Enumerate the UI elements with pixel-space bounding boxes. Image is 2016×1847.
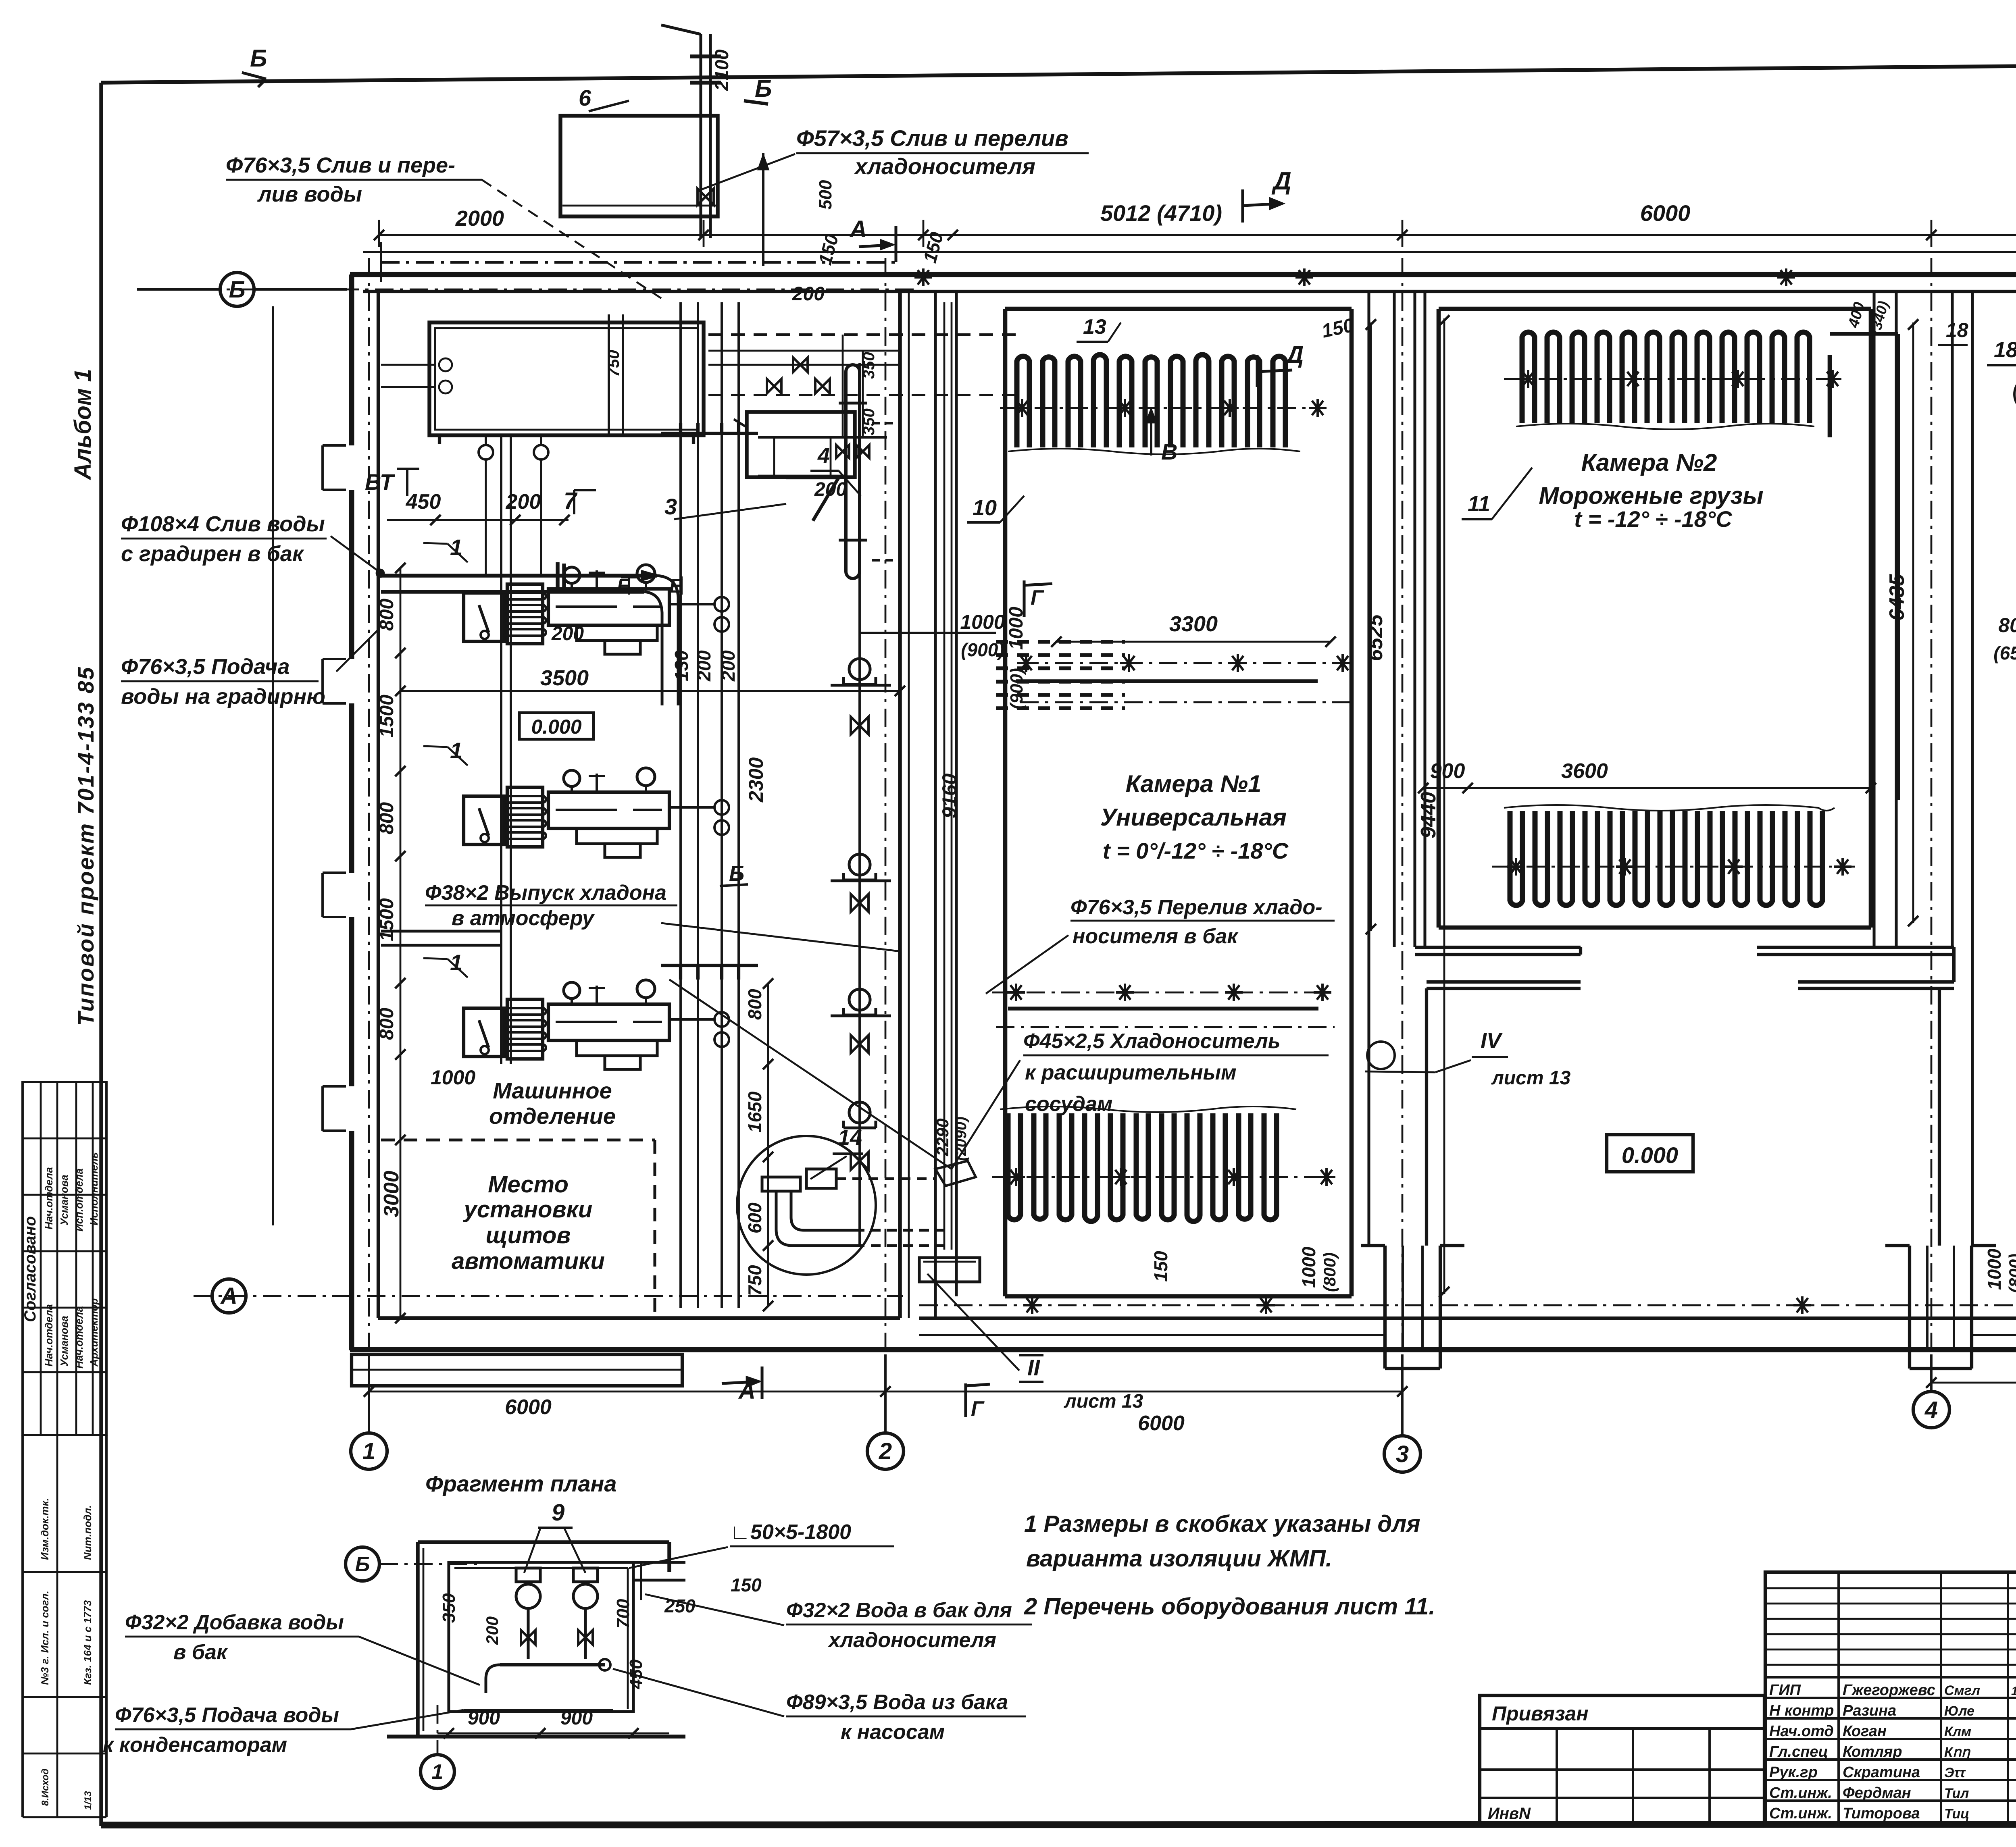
svg-text:2300: 2300 bbox=[745, 757, 767, 803]
svg-text:Б: Б bbox=[755, 75, 772, 102]
svg-text:Коган: Коган bbox=[1843, 1723, 1887, 1740]
svg-text:Б: Б bbox=[250, 45, 267, 72]
svg-text:9160: 9160 bbox=[938, 774, 961, 818]
svg-text:1 Размеры в скобках указаны дл: 1 Размеры в скобках указаны для bbox=[1024, 1511, 1420, 1537]
svg-text:Нач.отд: Нач.отд bbox=[1769, 1723, 1834, 1740]
svg-text:6000: 6000 bbox=[1640, 200, 1691, 226]
svg-text:Num.подл.: Num.подл. bbox=[81, 1505, 94, 1560]
svg-text:Ф76×3,5 Перелив хладо-: Ф76×3,5 Перелив хладо- bbox=[1070, 896, 1322, 919]
svg-text:Альбом 1: Альбом 1 bbox=[70, 369, 96, 480]
svg-text:∟50×5-1800: ∟50×5-1800 bbox=[730, 1520, 851, 1544]
svg-text:Г: Г bbox=[971, 1397, 985, 1421]
svg-text:Тиц: Тиц bbox=[1944, 1806, 1969, 1822]
svg-text:Смгл: Смгл bbox=[1944, 1683, 1980, 1698]
svg-text:Усманова: Усманова bbox=[58, 1175, 70, 1225]
svg-text:1/13: 1/13 bbox=[83, 1791, 94, 1810]
svg-text:6435: 6435 bbox=[1885, 574, 1909, 621]
svg-text:Ф108×4 Слив воды: Ф108×4 Слив воды bbox=[121, 512, 325, 536]
svg-text:Скратина: Скратина bbox=[1843, 1764, 1920, 1781]
svg-text:в бак: в бак bbox=[173, 1641, 228, 1664]
svg-text:1: 1 bbox=[362, 1438, 375, 1464]
svg-text:8.Исход: 8.Исход bbox=[40, 1768, 51, 1806]
svg-text:варианта изоляции ЖМП.: варианта изоляции ЖМП. bbox=[1026, 1545, 1332, 1572]
svg-text:Усманова: Усманова bbox=[58, 1316, 70, 1367]
svg-text:Кгз. 164 и с 1773: Кгз. 164 и с 1773 bbox=[81, 1600, 94, 1685]
svg-text:200: 200 bbox=[506, 490, 541, 514]
svg-text:200: 200 bbox=[694, 650, 714, 682]
svg-text:3: 3 bbox=[664, 494, 677, 519]
svg-text:1000: 1000 bbox=[1006, 607, 1027, 650]
svg-text:350: 350 bbox=[860, 408, 878, 435]
svg-text:1000: 1000 bbox=[960, 611, 1005, 633]
svg-text:3600: 3600 bbox=[1561, 759, 1608, 783]
svg-text:1500: 1500 bbox=[376, 898, 398, 941]
svg-text:ГИП: ГИП bbox=[1769, 1682, 1801, 1699]
svg-text:Фрагмент плана: Фрагмент плана bbox=[425, 1471, 616, 1496]
svg-text:Ф32×2 Вода в бак для: Ф32×2 Вода в бак для bbox=[786, 1599, 1012, 1622]
svg-text:9: 9 bbox=[552, 1500, 564, 1526]
svg-text:(900): (900) bbox=[1007, 668, 1027, 709]
svg-text:800: 800 bbox=[744, 989, 765, 1020]
svg-text:3300: 3300 bbox=[1169, 612, 1218, 636]
svg-text:Гжегоржевс: Гжегоржевс bbox=[1843, 1682, 1935, 1699]
svg-text:Ф76×3,5 Слив и пере-: Ф76×3,5 Слив и пере- bbox=[226, 153, 455, 177]
svg-text:Место: Место bbox=[488, 1171, 569, 1198]
svg-text:4: 4 bbox=[817, 443, 830, 468]
svg-text:лив воды: лив воды bbox=[257, 182, 362, 206]
svg-text:130: 130 bbox=[671, 650, 692, 681]
svg-text:Исп.отдела: Исп.отдела bbox=[73, 1169, 85, 1231]
svg-text:Б: Б bbox=[229, 277, 245, 303]
svg-text:0.000: 0.000 bbox=[1622, 1142, 1678, 1168]
svg-text:150: 150 bbox=[1150, 1251, 1171, 1282]
svg-text:0.000: 0.000 bbox=[531, 716, 581, 738]
svg-text:11: 11 bbox=[1468, 492, 1490, 516]
svg-text:900: 900 bbox=[560, 1708, 593, 1729]
svg-text:Архитектор: Архитектор bbox=[88, 1298, 100, 1367]
svg-text:200: 200 bbox=[483, 1616, 502, 1645]
svg-text:установки: установки bbox=[463, 1196, 593, 1223]
svg-text:1000: 1000 bbox=[1984, 1248, 2005, 1290]
svg-text:(800): (800) bbox=[2006, 1254, 2016, 1293]
svg-text:18: 18 bbox=[1994, 338, 2016, 362]
svg-text:к насосам: к насосам bbox=[841, 1720, 945, 1744]
svg-text:t = -12° ÷ -18°C: t = -12° ÷ -18°C bbox=[1574, 506, 1733, 532]
svg-text:9440: 9440 bbox=[1417, 792, 1440, 838]
svg-text:хладоносителя: хладоносителя bbox=[827, 1629, 996, 1652]
svg-text:Изм.док.тк.: Изм.док.тк. bbox=[39, 1498, 51, 1560]
svg-text:отделение: отделение bbox=[489, 1103, 616, 1129]
svg-text:Титорова: Титорова bbox=[1843, 1805, 1920, 1822]
svg-text:6000: 6000 bbox=[1138, 1412, 1185, 1435]
svg-text:1984: 1984 bbox=[2011, 1685, 2016, 1698]
svg-text:Д: Д bbox=[1271, 167, 1291, 195]
svg-text:Б: Б bbox=[729, 861, 744, 886]
svg-text:Ф38×2 Выпуск хладона: Ф38×2 Выпуск хладона bbox=[425, 881, 666, 905]
svg-text:II: II bbox=[1027, 1355, 1041, 1380]
svg-text:Привязан: Привязан bbox=[1492, 1702, 1589, 1725]
svg-text:200: 200 bbox=[792, 283, 825, 305]
svg-text:450: 450 bbox=[406, 490, 441, 514]
svg-text:1500: 1500 bbox=[376, 695, 398, 738]
svg-text:6000: 6000 bbox=[505, 1396, 552, 1419]
svg-text:Камера №2: Камера №2 bbox=[1581, 449, 1717, 476]
svg-text:18: 18 bbox=[1946, 319, 1968, 341]
svg-text:350: 350 bbox=[860, 352, 878, 379]
svg-text:Ст.инж.: Ст.инж. bbox=[1769, 1785, 1832, 1801]
svg-text:6525: 6525 bbox=[1364, 614, 1387, 661]
svg-text:с градирен в бак: с градирен в бак bbox=[121, 542, 304, 566]
svg-text:6: 6 bbox=[579, 85, 591, 110]
svg-text:щитов: щитов bbox=[486, 1222, 571, 1248]
svg-text:Ф76×3,5 Подача воды: Ф76×3,5 Подача воды bbox=[115, 1703, 339, 1727]
svg-text:Типовой проект 701-4-133 85: Типовой проект 701-4-133 85 bbox=[73, 666, 98, 1026]
svg-text:Универсальная: Универсальная bbox=[1100, 804, 1287, 831]
svg-text:(650): (650) bbox=[1993, 643, 2016, 664]
svg-text:500: 500 bbox=[816, 180, 835, 210]
svg-text:Котляр: Котляр bbox=[1843, 1743, 1902, 1760]
svg-text:лист 13: лист 13 bbox=[1064, 1391, 1143, 1412]
svg-text:Мороженые грузы: Мороженые грузы bbox=[1539, 482, 1763, 509]
svg-text:Б: Б bbox=[355, 1553, 370, 1576]
svg-text:Кող: Кող bbox=[1944, 1745, 1971, 1760]
svg-text:Эττ: Эττ bbox=[1944, 1765, 1966, 1780]
svg-text:Рук.гр: Рук.гр bbox=[1769, 1764, 1818, 1781]
svg-text:200: 200 bbox=[718, 650, 739, 682]
svg-text:А: А bbox=[220, 1283, 237, 1309]
svg-text:600: 600 bbox=[744, 1202, 765, 1233]
svg-text:Н контр: Н контр bbox=[1769, 1702, 1834, 1719]
svg-text:Ст.инж.: Ст.инж. bbox=[1769, 1805, 1832, 1822]
svg-text:900: 900 bbox=[1430, 759, 1465, 783]
svg-text:150: 150 bbox=[731, 1575, 762, 1595]
svg-text:носителя в бак: носителя в бак bbox=[1073, 925, 1239, 948]
svg-text:t = 0°/-12° ÷ -18°C: t = 0°/-12° ÷ -18°C bbox=[1103, 838, 1289, 863]
svg-text:800: 800 bbox=[1998, 614, 2016, 636]
svg-text:сосудам: сосудам bbox=[1025, 1092, 1112, 1116]
svg-text:2 Перечень оборудования лист 1: 2 Перечень оборудования лист 11. bbox=[1024, 1593, 1435, 1620]
svg-text:IV: IV bbox=[1481, 1029, 1503, 1053]
svg-text:5012 (4710): 5012 (4710) bbox=[1100, 200, 1222, 226]
svg-text:3500: 3500 bbox=[540, 666, 589, 690]
svg-text:2000: 2000 bbox=[455, 206, 504, 231]
svg-text:7: 7 bbox=[564, 488, 578, 514]
svg-text:350: 350 bbox=[439, 1593, 459, 1623]
svg-text:в атмосферу: в атмосферу bbox=[452, 907, 595, 930]
svg-text:2290: 2290 bbox=[933, 1119, 952, 1156]
svg-text:800: 800 bbox=[376, 802, 398, 834]
svg-text:Г: Г bbox=[1031, 586, 1044, 609]
svg-text:4: 4 bbox=[1924, 1397, 1938, 1423]
svg-text:2100: 2100 bbox=[711, 49, 732, 91]
svg-text:Нач.отдела: Нач.отдела bbox=[73, 1306, 85, 1369]
svg-text:3000: 3000 bbox=[380, 1171, 403, 1217]
svg-text:Согласовано: Согласовано bbox=[21, 1216, 39, 1322]
svg-text:лист 13: лист 13 bbox=[1491, 1067, 1571, 1089]
svg-text:(900): (900) bbox=[961, 639, 1004, 660]
svg-text:к конденсаторам: к конденсаторам bbox=[103, 1733, 287, 1757]
svg-text:750: 750 bbox=[605, 350, 623, 377]
svg-text:3: 3 bbox=[1396, 1441, 1409, 1467]
svg-text:Ф76×3,5 Подача: Ф76×3,5 Подача bbox=[121, 655, 290, 679]
svg-text:воды на градирню: воды на градирню bbox=[121, 684, 325, 709]
svg-text:Исполнитель: Исполнитель bbox=[88, 1152, 100, 1225]
svg-text:Разина: Разина bbox=[1843, 1702, 1896, 1719]
svg-text:1000: 1000 bbox=[431, 1066, 475, 1089]
svg-text:№3 г. Исл. и согл.: №3 г. Исл. и согл. bbox=[39, 1591, 51, 1685]
svg-text:700: 700 bbox=[613, 1599, 633, 1629]
svg-text:13: 13 bbox=[1083, 315, 1106, 339]
svg-text:Нач.отдела: Нач.отдела bbox=[43, 1167, 55, 1229]
svg-text:Клм: Клм bbox=[1944, 1724, 1971, 1739]
svg-text:750: 750 bbox=[744, 1265, 765, 1296]
svg-text:1650: 1650 bbox=[744, 1091, 765, 1133]
svg-text:1000: 1000 bbox=[1298, 1246, 1319, 1288]
svg-text:Фердман: Фердман bbox=[1843, 1785, 1911, 1801]
svg-text:800: 800 bbox=[376, 1008, 398, 1040]
svg-text:ВТ: ВТ bbox=[365, 469, 396, 495]
svg-text:10: 10 bbox=[973, 496, 997, 520]
svg-text:(800): (800) bbox=[1320, 1252, 1339, 1292]
svg-text:автоматики: автоматики bbox=[452, 1248, 605, 1274]
svg-text:Ф89×3,5 Вода из бака: Ф89×3,5 Вода из бака bbox=[786, 1691, 1008, 1714]
svg-text:Нач.отдела: Нач.отдела bbox=[43, 1304, 55, 1367]
svg-text:Машинное: Машинное bbox=[493, 1078, 612, 1103]
svg-text:Гл.спец: Гл.спец bbox=[1769, 1743, 1828, 1760]
svg-text:Камера №1: Камера №1 bbox=[1126, 770, 1262, 797]
svg-text:800: 800 bbox=[376, 599, 398, 631]
svg-text:Ф45×2,5 Хладоноситель: Ф45×2,5 Хладоноситель bbox=[1023, 1030, 1281, 1053]
svg-text:Ф57×3,5 Слив и перелив: Ф57×3,5 Слив и перелив bbox=[796, 125, 1068, 151]
svg-text:1: 1 bbox=[432, 1760, 444, 1784]
svg-text:Ф32×2 Добавка воды: Ф32×2 Добавка воды bbox=[125, 1611, 344, 1634]
svg-text:200: 200 bbox=[551, 623, 584, 645]
svg-text:ИнвN: ИнвN bbox=[1488, 1805, 1531, 1822]
svg-text:2: 2 bbox=[879, 1438, 892, 1464]
svg-text:Юле: Юле bbox=[1944, 1703, 1974, 1719]
svg-text:к расширительным: к расширительным bbox=[1025, 1061, 1237, 1084]
svg-text:Тил: Тил bbox=[1944, 1786, 1969, 1801]
svg-text:хладоносителя: хладоносителя bbox=[854, 154, 1035, 179]
svg-text:А: А bbox=[849, 216, 867, 242]
svg-text:900: 900 bbox=[468, 1708, 500, 1729]
